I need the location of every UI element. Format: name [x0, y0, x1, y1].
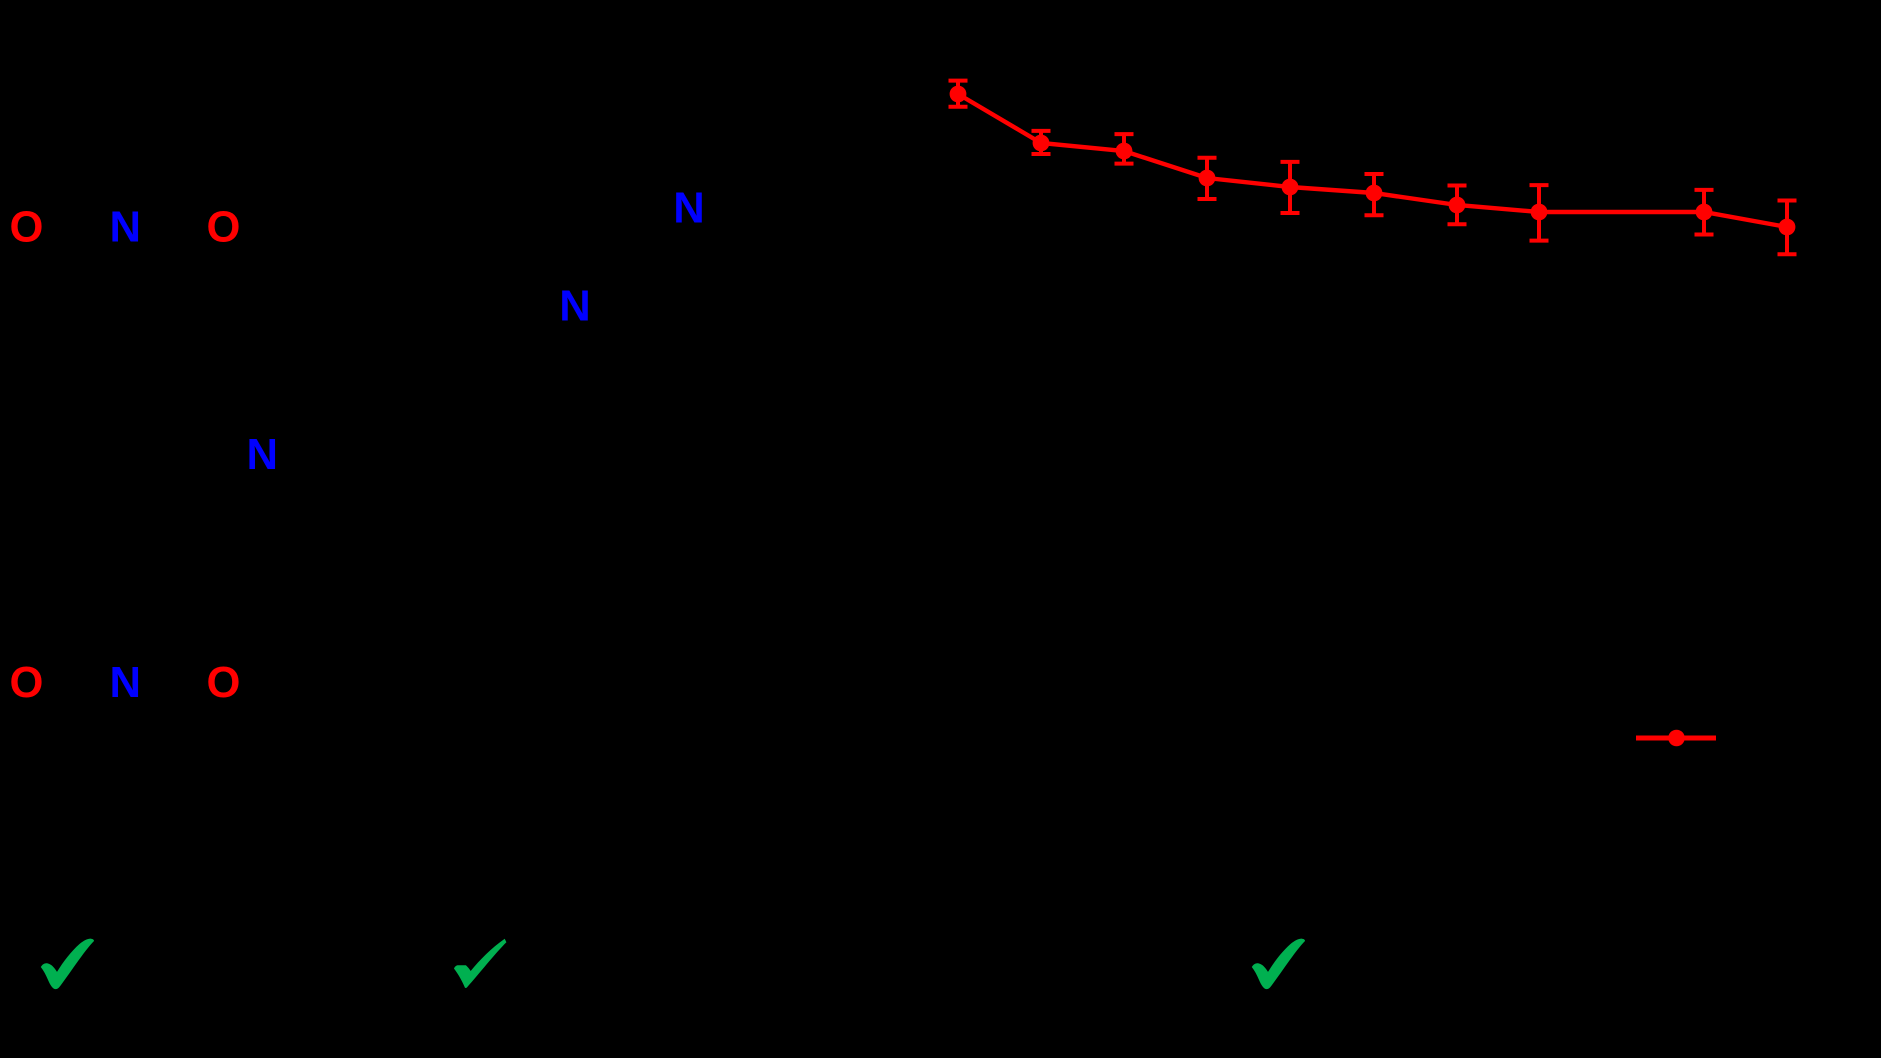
chart error bars	[949, 81, 1797, 255]
svg-text:N: N	[247, 431, 278, 479]
error bar 10	[1778, 201, 1797, 255]
data point 7	[1449, 197, 1466, 214]
svg-text:O: O	[206, 659, 240, 707]
svg-text:O: O	[206, 204, 240, 252]
data point 1	[950, 86, 967, 103]
svg-text:N: N	[559, 283, 590, 331]
data point 9	[1696, 204, 1713, 221]
data point 8	[1531, 204, 1548, 221]
data point 2	[1033, 135, 1050, 152]
error bar 5	[1281, 162, 1300, 213]
svg-text:O: O	[9, 659, 43, 707]
error bar 3	[1115, 134, 1134, 164]
error bar 8	[1530, 185, 1549, 241]
error bar 2	[1032, 131, 1051, 154]
checkmark 2	[454, 939, 506, 988]
data point 6	[1366, 185, 1383, 202]
svg-text:N: N	[673, 185, 704, 233]
error bar 6	[1365, 174, 1384, 215]
legend line	[1636, 736, 1716, 741]
svg-text:N: N	[110, 204, 141, 252]
chart line	[958, 94, 1787, 227]
error bar 1	[949, 81, 968, 107]
error bar 4	[1198, 158, 1217, 199]
checkmark 3	[1252, 939, 1305, 989]
checkmark 1	[41, 939, 94, 989]
data point 5	[1282, 179, 1299, 196]
legend marker	[1668, 730, 1685, 747]
svg-text:N: N	[110, 659, 141, 707]
error bar 7	[1448, 186, 1467, 225]
svg-text:O: O	[9, 204, 43, 252]
data markers	[950, 86, 1796, 236]
data point 10	[1779, 219, 1796, 236]
error bar 9	[1695, 190, 1714, 235]
data point 4	[1199, 170, 1216, 187]
data point 3	[1116, 143, 1133, 160]
